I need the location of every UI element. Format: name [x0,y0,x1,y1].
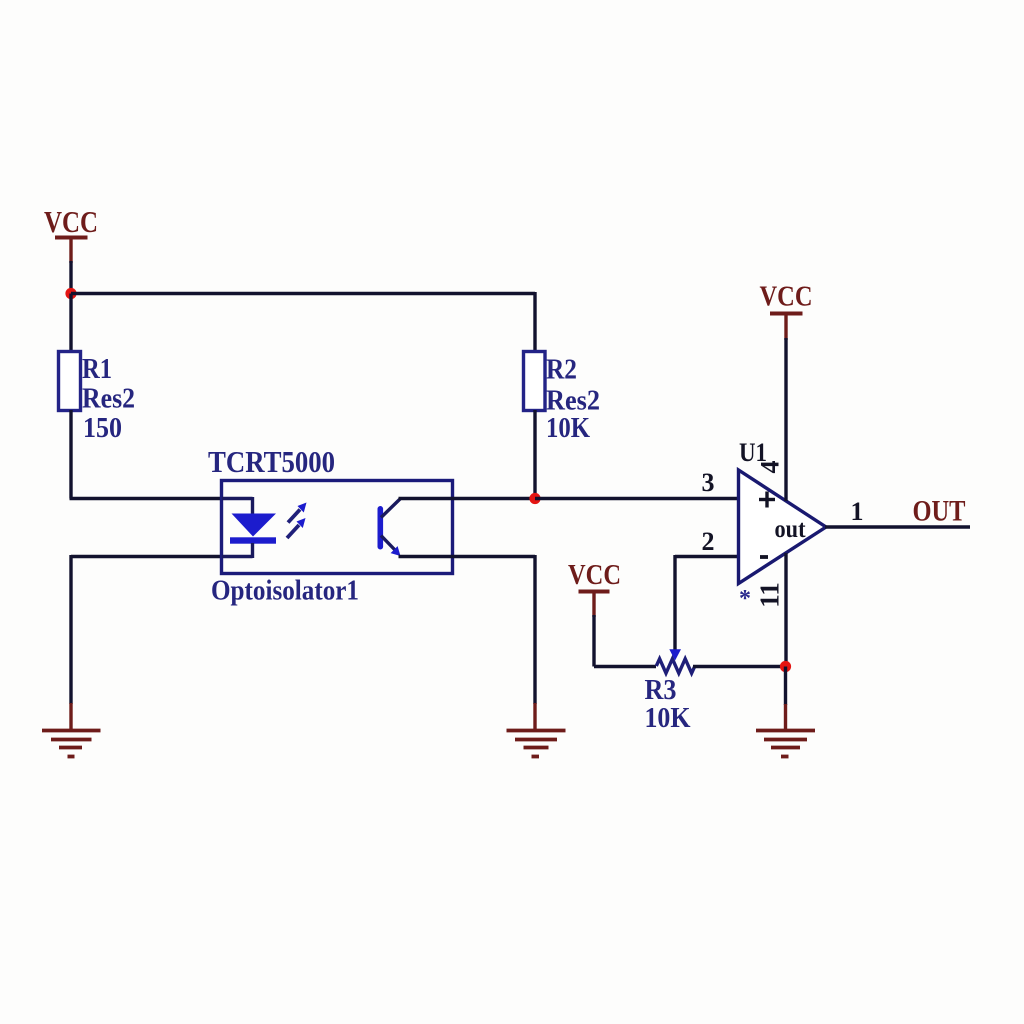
svg-text:3: 3 [702,468,715,497]
svg-text:R1: R1 [82,353,112,385]
optocoupler body box [222,481,453,574]
pin number 3 [702,468,715,497]
phototransistor collector [381,499,400,518]
LED anode lead inside optocoupler [222,497,253,515]
label out (pin name) [775,516,807,543]
pin number 4 (rotated) [755,461,784,474]
op-amp U1 triangle [739,470,827,584]
LED emission arrow (lower) [287,518,306,538]
label R3 value 10K [645,702,691,734]
wire op-amp pin 11 down to junction [784,553,787,667]
svg-text:Res2: Res2 [82,383,135,415]
label R1 value 150 [83,412,122,444]
R3 wiper arrowhead [669,649,681,660]
LED diode triangle (emitter) [232,514,277,537]
power VCC net label (op-amp supply) [760,281,813,313]
svg-text:10K: 10K [546,412,590,444]
label R3 designator [645,674,677,706]
wire op-amp output [825,525,970,528]
wire top rail to R2 [71,292,535,295]
node junction R2/optocoupler/pin3 (red dot) [529,493,540,504]
svg-text:R2: R2 [546,354,577,386]
svg-text:11: 11 [755,582,785,608]
svg-text:TCRT5000: TCRT5000 [208,444,335,479]
power VCC bar symbol (op-amp supply) [770,314,803,341]
LED cathode bar [230,537,276,543]
svg-text:VCC: VCC [760,281,813,313]
wire R1 bottom lead down [69,410,72,499]
resistor R1 [59,352,81,411]
wire R3 to junction [693,665,786,668]
power VCC bar symbol (R3) [579,592,610,618]
svg-text:VCC: VCC [44,204,98,239]
label TCRT5000 [208,444,335,479]
ground symbol (right) [756,731,815,757]
pin number 2 [702,527,715,556]
svg-text:2: 2 [702,527,715,556]
wire VCC down and right to R3 [594,615,656,667]
svg-text:10K: 10K [645,702,691,734]
wire VCC to op-amp pin 4 [784,338,787,501]
phototransistor base bar [378,506,384,550]
wire op-amp pin 2 [675,555,739,558]
node junction VCC/R1/top-rail (red dot) [65,288,76,299]
svg-text:out: out [775,516,807,543]
svg-text:VCC: VCC [568,559,621,591]
wire junction to op-amp pin 3 [535,497,739,500]
op-amp asterisk marker [739,586,751,612]
op-amp minus input marker [760,555,768,559]
LED emission arrow (upper) [288,503,307,523]
net label OUT [913,495,966,528]
wire VCC stem to junction [69,261,72,295]
ground symbol (left) [42,731,101,757]
wire R1 to optocoupler anode [70,497,223,500]
power VCC net label (R3) [568,559,621,591]
wire pin 2 down to R3 wiper [673,555,676,650]
svg-text:OUT: OUT [913,495,966,528]
label Optoisolator1 [211,575,359,607]
wire junction down to ground [784,667,787,730]
label U1 designator [739,438,767,467]
pin number 1 [851,497,864,526]
power VCC net label (left) [44,204,98,239]
wire emitter to ground drop [399,555,536,729]
label R2 type Res2 [546,385,600,417]
node junction R3/pin11/ground (red dot) [780,661,791,672]
label R2 designator [546,354,577,386]
label R1 designator [82,353,112,385]
wire junction to R1 [69,294,72,354]
phototransistor emitter with arrow [381,536,401,557]
svg-text:Optoisolator1: Optoisolator1 [211,575,359,607]
label R1 type Res2 [82,383,135,415]
svg-text:150: 150 [83,412,122,444]
wire R2 top lead [533,292,536,353]
ground symbol (middle) [507,731,566,757]
wire optocoupler cathode return (bottom left) [71,555,222,729]
power VCC bar symbol (left) [55,238,88,264]
resistor R3 zigzag [656,659,695,673]
wire R2 bottom lead [533,410,536,499]
svg-text:1: 1 [851,497,864,526]
op-amp plus input marker [759,492,775,508]
svg-text:4: 4 [755,461,784,474]
svg-text:*: * [739,586,751,612]
LED cathode lead [222,543,253,558]
pin number 11 (rotated) [755,582,785,608]
resistor R2 [524,352,546,411]
wire collector to junction [399,497,537,500]
label R2 value 10K [546,412,590,444]
